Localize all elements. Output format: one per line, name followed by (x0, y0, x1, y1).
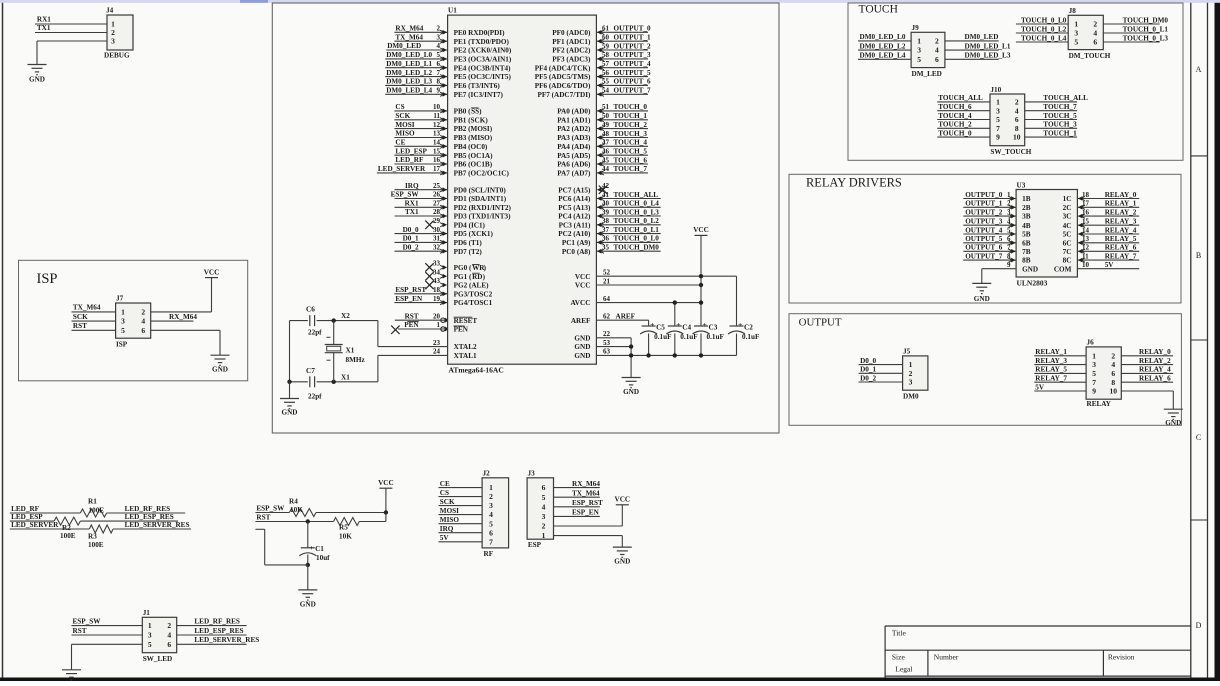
svg-text:20: 20 (433, 312, 441, 320)
svg-text:OUTPUT_0: OUTPUT_0 (965, 191, 1003, 199)
wire net OUTPUT_3 to U3 pin 4 (963, 224, 1016, 226)
wire net DM0_LED_L1 to U1 pin 6 (385, 67, 447, 69)
wire net CS to U1 pin 10 (394, 110, 447, 112)
svg-text:7: 7 (1092, 378, 1096, 387)
svg-text:60: 60 (602, 34, 610, 42)
svg-text:+: + (676, 320, 680, 329)
U1 pin 43 marker (443, 283, 448, 288)
svg-text:6: 6 (167, 640, 171, 649)
svg-text:TOUCH_6: TOUCH_6 (938, 103, 972, 111)
wire net DM0_LED_L0 to J9 pin 1 (858, 40, 911, 42)
svg-text:TOUCH_1: TOUCH_1 (614, 112, 648, 120)
svg-text:OUTPUT_7: OUTPUT_7 (614, 87, 652, 95)
resistor R1 (80, 509, 106, 517)
U1 pin 45 marker (right) (597, 162, 602, 167)
svg-text:0.1uF: 0.1uF (680, 333, 698, 341)
svg-text:6: 6 (437, 60, 441, 68)
svg-text:2: 2 (542, 522, 546, 531)
svg-text:5: 5 (1092, 369, 1096, 378)
svg-text:OUTPUT_5: OUTPUT_5 (614, 69, 652, 77)
crystal X1 (333, 321, 335, 345)
U3 pin 8 marker (1011, 258, 1016, 263)
svg-text:C7: C7 (306, 367, 315, 375)
top lavender strip (0, 0, 1220, 3)
svg-text:PC6 (A14): PC6 (A14) (558, 195, 591, 203)
U1 section box (272, 3, 779, 433)
svg-text:ESP: ESP (528, 541, 542, 549)
svg-text:3: 3 (1074, 29, 1078, 38)
capacitor C6 (309, 315, 311, 326)
svg-text:2: 2 (1093, 20, 1097, 29)
svg-text:GND: GND (29, 76, 45, 84)
svg-text:RELAY_7: RELAY_7 (1035, 375, 1067, 383)
svg-text:4: 4 (1093, 29, 1097, 38)
wire J8 pin 4 to net TOUCH_0_L1 (1103, 32, 1159, 34)
wire net LED_RF to U1 pin 16 (394, 163, 447, 165)
wire J6 pin 8 to net RELAY_6 (1121, 381, 1173, 383)
svg-text:PA7 (AD7): PA7 (AD7) (557, 170, 591, 178)
zone divider C/D (1191, 519, 1208, 521)
wire net D0_0 to J5 pin 1 (859, 364, 903, 366)
svg-text:RD: RD (472, 273, 482, 281)
svg-text:1: 1 (489, 483, 493, 492)
svg-text:TOUCH_0_L2: TOUCH_0_L2 (614, 217, 660, 225)
svg-text:D: D (1196, 621, 1202, 630)
svg-text:PD3 (TXD1/INT3): PD3 (TXD1/INT3) (454, 213, 512, 221)
capacitor C1 (307, 522, 309, 548)
svg-text:24: 24 (433, 348, 441, 356)
svg-text:63: 63 (603, 348, 611, 356)
capacitor C4 (668, 325, 682, 327)
wire U3 pin 15 to net RELAY_3 (1077, 224, 1139, 226)
wire U1 pin 58 to net OUTPUT_3 (596, 58, 648, 60)
svg-text:RX_M64: RX_M64 (572, 480, 600, 488)
svg-text:3: 3 (121, 317, 125, 326)
no-connect X on U1 pin 29 (425, 221, 433, 229)
svg-text:TOUCH_2: TOUCH_2 (938, 121, 972, 129)
wire net LED_SERVER to U1 pin 17 (377, 172, 448, 174)
svg-text:VCC: VCC (693, 226, 709, 234)
svg-text:TOUCH_6: TOUCH_6 (614, 156, 648, 164)
wire net SCK to J2 pin 3 (439, 505, 483, 507)
svg-text:55: 55 (602, 78, 610, 86)
svg-text:LED_SERVER: LED_SERVER (378, 165, 426, 173)
svg-text:28: 28 (433, 208, 441, 216)
wire U1 pin 38 to net TOUCH_0_L2 (596, 224, 660, 226)
svg-text:RELAY_6: RELAY_6 (1105, 244, 1137, 252)
svg-text:PA6 (AD6): PA6 (AD6) (557, 161, 591, 169)
U1 pin 38 marker (right) (597, 223, 602, 228)
U3 pin 4 marker (1011, 223, 1016, 228)
svg-text:7C: 7C (1063, 248, 1072, 256)
svg-text:8: 8 (1111, 378, 1115, 387)
wire J3 pin 4 to net ESP_RST (554, 506, 600, 508)
svg-text:45: 45 (602, 156, 610, 164)
wire net TOUCH_2 to J10 pin 7 (937, 127, 990, 129)
ground C1 (298, 589, 317, 591)
wire U1 pin 37 to net TOUCH_0_L1 (596, 233, 660, 235)
wire U1 pin 48 to net TOUCH_3 (596, 137, 648, 139)
svg-text:XTAL2: XTAL2 (454, 343, 477, 351)
svg-text:TOUCH_0_L4: TOUCH_0_L4 (1021, 34, 1067, 42)
U1 pin 31 marker (443, 240, 448, 245)
svg-text:PA1 (AD1): PA1 (AD1) (557, 116, 591, 124)
svg-text:TOUCH_0: TOUCH_0 (614, 103, 648, 111)
U1 pin 1 marker (441, 327, 445, 331)
svg-text:2B: 2B (1022, 204, 1031, 212)
svg-text:7: 7 (437, 69, 441, 77)
junction dot 631/346 (629, 344, 633, 348)
wire J10 pin 8 to net TOUCH_3 (1025, 127, 1077, 129)
wire X1 node bottom (290, 381, 308, 383)
svg-text:PD1 (SDA/INT1): PD1 (SDA/INT1) (454, 195, 507, 203)
wire J1 pin 6 to LED_SERVER_RES (177, 643, 247, 645)
svg-text:6: 6 (1015, 115, 1019, 124)
svg-text:56: 56 (602, 69, 610, 77)
OUTPUT section box (789, 314, 1181, 426)
junction dot VCC/R4 (384, 510, 388, 514)
svg-text:PE0 RXD0(PDI): PE0 RXD0(PDI) (454, 29, 506, 37)
svg-text:XTAL1: XTAL1 (454, 352, 477, 360)
svg-text:TX_M64: TX_M64 (572, 490, 600, 498)
wire GND drop at 631 (630, 338, 632, 378)
svg-text:10K: 10K (290, 506, 303, 514)
svg-text:A: A (1196, 65, 1202, 74)
wire net MISO to U1 pin 13 (394, 137, 447, 139)
svg-text:1: 1 (121, 307, 125, 316)
sheet right inner border (1190, 3, 1192, 678)
U1 pin 39 marker (right) (597, 214, 602, 219)
svg-text:4: 4 (167, 631, 171, 640)
U1 pin 27 marker (443, 205, 448, 210)
svg-text:DM0_LED_L0: DM0_LED_L0 (386, 51, 432, 59)
U1 pin 7 marker (443, 74, 448, 79)
svg-text:1: 1 (909, 360, 913, 369)
svg-text:6B: 6B (1022, 239, 1031, 247)
wire net 5V to J2 pin 7 (439, 541, 483, 543)
svg-text:50: 50 (602, 112, 610, 120)
wire R2 to LED_ESP_RES (80, 520, 178, 522)
svg-text:2: 2 (909, 369, 913, 378)
wire U3 pin 17 to net RELAY_1 (1077, 206, 1139, 208)
ground below J4 (28, 64, 47, 66)
wire RST to R5 (255, 521, 333, 523)
junction dot C3 rail (699, 353, 703, 357)
wire RST to J7 pin 5 (72, 329, 116, 331)
svg-text:14: 14 (433, 139, 441, 147)
svg-text:PC1 (A9): PC1 (A9) (562, 239, 591, 247)
svg-text:J9: J9 (912, 24, 920, 32)
svg-text:9: 9 (996, 133, 1000, 142)
svg-text:4: 4 (935, 46, 939, 55)
U1 pin 32 marker (443, 249, 448, 254)
wire net DM0_LED_L4 to U1 pin 9 (385, 93, 447, 95)
svg-text:1: 1 (917, 37, 921, 46)
svg-text:IRQ: IRQ (440, 525, 454, 533)
U1 pin 50 marker (right) (597, 118, 602, 123)
svg-text:C1: C1 (315, 545, 324, 553)
svg-text:TOUCH_0_L1: TOUCH_0_L1 (1123, 25, 1169, 33)
svg-text:VCC: VCC (378, 479, 394, 487)
U1 pin 18 marker (443, 292, 448, 297)
junction dot 674/302 (673, 300, 677, 304)
svg-text:PF4 (ADC4/TCK): PF4 (ADC4/TCK) (535, 64, 591, 72)
wire U1 pin 54 to net OUTPUT_7 (596, 93, 648, 95)
svg-text:J10: J10 (990, 86, 1001, 94)
svg-text:TOUCH_0_L2: TOUCH_0_L2 (1021, 25, 1067, 33)
svg-text:10uf: 10uf (316, 554, 330, 562)
svg-text:100E: 100E (60, 532, 76, 540)
svg-text:32: 32 (433, 243, 441, 251)
svg-text:41: 41 (602, 191, 610, 199)
svg-text:ISP: ISP (37, 271, 58, 287)
svg-text:40: 40 (602, 200, 610, 208)
U3 pin 6 marker (1011, 241, 1016, 246)
wire RST to J1 pin 3 (72, 634, 143, 636)
wire net LED_ESP to U1 pin 15 (394, 154, 447, 156)
svg-text:TOUCH_0_L1: TOUCH_0_L1 (614, 226, 660, 234)
svg-text:PB4 (OC0): PB4 (OC0) (454, 143, 488, 151)
svg-text:+: + (309, 543, 313, 552)
svg-text:MOSI: MOSI (395, 121, 414, 129)
wire net 5V to J6 pin 9 (1034, 390, 1086, 392)
title block outline (885, 625, 1191, 627)
wire net TOUCH_0_L2 to J8 pin 3 (1016, 32, 1068, 34)
svg-text:3: 3 (111, 37, 115, 46)
svg-text:J4: J4 (106, 7, 114, 15)
svg-text:PA2 (AD2): PA2 (AD2) (557, 125, 591, 133)
svg-text:DM0_LED_L3: DM0_LED_L3 (965, 52, 1011, 60)
wire net TOUCH_0 to J10 pin 9 (937, 136, 990, 138)
svg-text:44: 44 (602, 165, 610, 173)
svg-text:RX1: RX1 (405, 200, 419, 208)
ground U3 (972, 282, 991, 284)
junction dot 631/355 (629, 353, 633, 357)
wire X1 to XTAL1 (377, 355, 379, 381)
svg-text:+: + (738, 320, 742, 329)
svg-text:AREF: AREF (616, 313, 636, 321)
wire U1 pin 39 to net TOUCH_0_L3 (596, 215, 660, 217)
wire J3 pin 1 to ground (554, 535, 623, 537)
svg-text:10: 10 (1082, 261, 1090, 269)
svg-text:53: 53 (603, 339, 611, 347)
wire U3 pin 14 to net RELAY_4 (1077, 233, 1139, 235)
svg-text:PG4/TOSC1: PG4/TOSC1 (454, 299, 493, 307)
svg-text:SW_LED: SW_LED (143, 655, 173, 663)
svg-text:3: 3 (996, 106, 1000, 115)
svg-text:OUTPUT_2: OUTPUT_2 (965, 208, 1003, 216)
svg-text:Number: Number (934, 653, 959, 662)
svg-text:PEN: PEN (454, 326, 469, 334)
junction dot 701/276 (699, 274, 703, 278)
wire U1 pin 62 AREF (596, 319, 648, 321)
wire J9 pin 6 to net DM0_LED_L3 (945, 58, 999, 60)
wire J1 pin 4 to LED_ESP_RES (177, 634, 247, 636)
svg-text:DM0_LED: DM0_LED (387, 42, 421, 50)
wire U1 pin 51 to net TOUCH_0 (596, 110, 648, 112)
wire U1 pin 40 to net TOUCH_0_L4 (596, 206, 660, 208)
svg-text:TOUCH_0: TOUCH_0 (938, 129, 972, 137)
wire J9 pin 2 to net DM0_LED (945, 40, 999, 42)
svg-text:8C: 8C (1063, 257, 1072, 265)
svg-text:TOUCH_4: TOUCH_4 (938, 112, 972, 120)
svg-text:TOUCH_ALL: TOUCH_ALL (938, 94, 983, 102)
svg-text:27: 27 (433, 200, 441, 208)
svg-text:D0_0: D0_0 (403, 226, 419, 234)
wire J3 pin 6 to net RX_M64 (554, 487, 600, 489)
svg-text:LED_SERVER_RES: LED_SERVER_RES (125, 521, 190, 529)
svg-text:ESP_SW: ESP_SW (391, 191, 420, 199)
wire net D0_0 to U1 pin 30 (395, 233, 448, 235)
svg-text:1B: 1B (1022, 195, 1031, 203)
U3 pin 3 marker (1011, 214, 1016, 219)
svg-text:5: 5 (996, 115, 1000, 124)
wire U1 pin 45 to net TOUCH_6 (596, 163, 648, 165)
svg-text:TOUCH_3: TOUCH_3 (614, 130, 648, 138)
wire net RX_M64 to U1 pin 2 (394, 31, 447, 33)
svg-text:100E: 100E (88, 541, 104, 549)
U3 pin 5 marker (1011, 232, 1016, 237)
svg-text:3: 3 (917, 46, 921, 55)
junction dot C1 bottom (306, 563, 310, 567)
U1 pin 37 marker (right) (597, 231, 602, 236)
wire J1 pin 2 to LED_RF_RES (177, 625, 247, 627)
U1 pin 9 marker (443, 92, 448, 97)
svg-text:J2: J2 (483, 470, 491, 478)
wire C2 top vertical (736, 276, 738, 326)
wire net D0_1 to J5 pin 2 (859, 372, 903, 374)
U3 pin 11 marker (1078, 258, 1083, 263)
svg-text:OUTPUT_0: OUTPUT_0 (614, 25, 652, 33)
svg-text:DM_TOUCH: DM_TOUCH (1069, 52, 1111, 60)
svg-text:3: 3 (489, 501, 493, 510)
svg-text:34: 34 (433, 268, 441, 276)
svg-text:PE1 (TXD0/PDO): PE1 (TXD0/PDO) (454, 38, 510, 46)
svg-text:OUTPUT_2: OUTPUT_2 (614, 42, 652, 50)
svg-text:5B: 5B (1022, 231, 1031, 239)
svg-text:61: 61 (602, 25, 610, 33)
svg-text:PB2 (MOSI): PB2 (MOSI) (454, 125, 493, 133)
svg-text:RELAY_4: RELAY_4 (1139, 366, 1171, 374)
svg-text:58: 58 (602, 51, 610, 59)
svg-text:PA5 (AD5): PA5 (AD5) (557, 152, 591, 160)
capacitor C3 (694, 325, 708, 327)
svg-text:TOUCH_4: TOUCH_4 (614, 139, 648, 147)
svg-text:LED_RF: LED_RF (395, 156, 424, 164)
svg-text:64: 64 (603, 295, 611, 303)
svg-text:4C: 4C (1063, 222, 1072, 230)
connector J9 (911, 32, 945, 67)
wire TX1 to J4 pin 2 (35, 32, 107, 34)
U3 pin 15 marker (1078, 223, 1083, 228)
svg-text:SS: SS (471, 108, 479, 116)
svg-text:22pf: 22pf (308, 393, 322, 401)
U1 pin 8 marker (443, 83, 448, 88)
svg-text:B: B (1196, 251, 1201, 260)
svg-text:Title: Title (892, 629, 907, 638)
wire U3 pin 16 to net RELAY_2 (1077, 215, 1139, 217)
svg-text:GND: GND (212, 366, 228, 374)
svg-text:15: 15 (433, 147, 441, 155)
wire LED_ESP to R2 (10, 520, 54, 522)
wire U1 pin 47 to net TOUCH_4 (596, 145, 648, 147)
wire net DM0_LED_L2 to U1 pin 7 (385, 76, 447, 78)
wire net TOUCH_6 to J10 pin 3 (937, 110, 990, 112)
svg-text:3: 3 (909, 378, 913, 387)
sheet right outer border (1207, 3, 1209, 678)
svg-text:X1: X1 (341, 373, 350, 381)
svg-text:PD5 (XCK1): PD5 (XCK1) (454, 230, 494, 238)
svg-text:57: 57 (602, 60, 610, 68)
svg-text:+: + (650, 320, 654, 329)
svg-text:PG2 (ALE): PG2 (ALE) (454, 282, 490, 290)
svg-text:6: 6 (489, 528, 493, 537)
wire U3 pin 10 to net 5V (1077, 268, 1139, 270)
svg-text:10: 10 (1110, 387, 1118, 396)
wire net ESP_SW to U1 pin 26 (395, 198, 448, 200)
wire U1 pin 22 GND (596, 337, 631, 339)
svg-text:4: 4 (1111, 360, 1115, 369)
svg-text:MOSI: MOSI (440, 507, 459, 515)
svg-text:C5: C5 (656, 324, 665, 332)
svg-text:TOUCH_1: TOUCH_1 (1043, 129, 1077, 137)
capacitor C2 (730, 325, 744, 327)
wire net CS to J2 pin 2 (439, 496, 483, 498)
wire net DM0_LED to U1 pin 4 (386, 49, 447, 51)
svg-text:PC0 (A8): PC0 (A8) (562, 248, 591, 256)
svg-text:OUTPUT_6: OUTPUT_6 (965, 244, 1003, 252)
wire J7 pin 2 to VCC (151, 311, 212, 313)
no-connect X on U1 pin 34 (425, 272, 433, 280)
svg-text:MISO: MISO (440, 516, 460, 524)
svg-text:LED_SERVER: LED_SERVER (11, 521, 59, 529)
svg-text:TOUCH_5: TOUCH_5 (614, 148, 648, 156)
svg-text:DEBUG: DEBUG (104, 52, 130, 60)
wire U1 pin 61 to net OUTPUT_0 (596, 31, 648, 33)
svg-text:4: 4 (542, 502, 546, 511)
wire X2 node top (290, 320, 308, 322)
svg-text:22pf: 22pf (308, 329, 322, 337)
svg-text:TOUCH_DM0: TOUCH_DM0 (1123, 16, 1169, 24)
svg-text:U3: U3 (1017, 181, 1026, 189)
svg-text:OUTPUT: OUTPUT (799, 316, 842, 328)
svg-text:PA3 (AD3): PA3 (AD3) (557, 134, 591, 142)
svg-text:RELAY_0: RELAY_0 (1139, 348, 1171, 356)
junction dot C5 rail (646, 353, 650, 357)
svg-text:D0_1: D0_1 (403, 235, 419, 243)
svg-text:30: 30 (433, 226, 441, 234)
svg-text:TOUCH_ALL: TOUCH_ALL (1043, 94, 1088, 102)
wire R3 to LED_SERVER_RES (113, 528, 191, 530)
svg-text:J1: J1 (143, 609, 151, 617)
svg-text:DM0: DM0 (903, 392, 919, 400)
svg-text:VCC: VCC (575, 273, 591, 281)
junction dot 701/302 (699, 300, 703, 304)
wire U1 pin 21 VCC (596, 284, 701, 286)
svg-text:4: 4 (489, 510, 493, 519)
U1 pin 5 marker (443, 57, 448, 62)
resistor R2 (54, 517, 80, 525)
svg-text:8: 8 (437, 78, 441, 86)
svg-text:OUTPUT_3: OUTPUT_3 (965, 218, 1003, 226)
wire ESP_SW to R4 (255, 512, 289, 514)
svg-text:LED_RF_RES: LED_RF_RES (125, 505, 171, 513)
svg-text:LED_ESP_RES: LED_ESP_RES (194, 627, 243, 635)
wire C4 bottom (674, 334, 676, 356)
wire J6 pin 2 to net RELAY_0 (1121, 355, 1173, 357)
svg-text:PC4 (A12): PC4 (A12) (558, 213, 591, 221)
wire net OUTPUT_4 to U3 pin 5 (963, 233, 1016, 235)
